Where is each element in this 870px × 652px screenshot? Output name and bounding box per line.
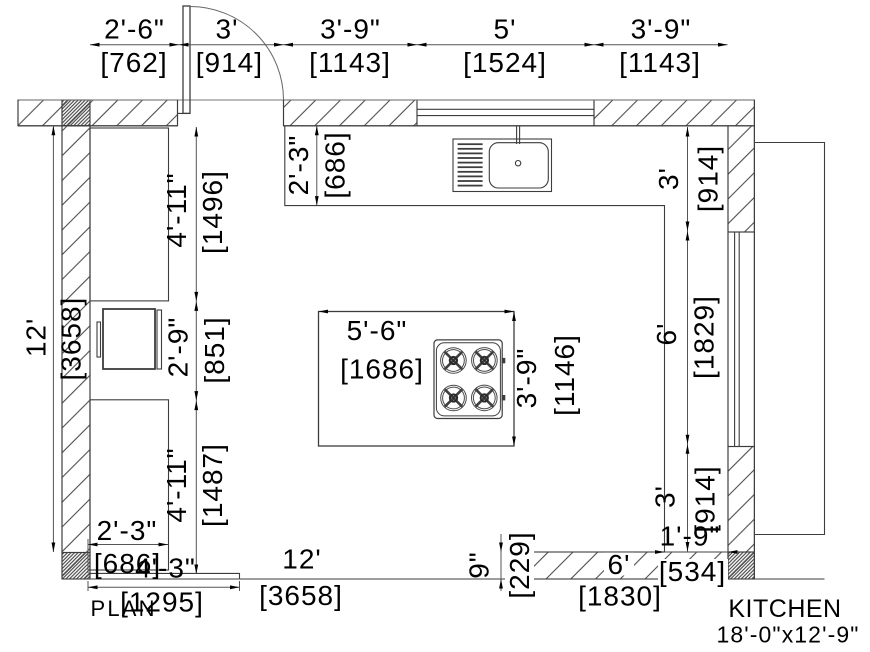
dim line 2ft3 near door bbox=[316, 126, 318, 206]
sink drain bbox=[515, 161, 520, 166]
svg-text:4'-11": 4'-11" bbox=[161, 447, 192, 522]
arrows top dim bbox=[90, 43, 100, 47]
svg-text:6': 6' bbox=[651, 323, 682, 346]
svg-text:[1146]: [1146] bbox=[549, 334, 580, 416]
dim line 9in vertical bbox=[500, 534, 502, 591]
svg-text:[1830]: [1830] bbox=[578, 581, 662, 612]
svg-text:[1143]: [1143] bbox=[619, 47, 701, 78]
svg-text:5': 5' bbox=[494, 14, 517, 45]
right wall hatched upper bbox=[728, 126, 754, 232]
svg-text:PLAN: PLAN bbox=[91, 596, 157, 621]
bottom wall hatched bbox=[530, 552, 728, 579]
left wall corner block bottom (dark) bbox=[62, 553, 90, 580]
low curb strip bottom left bbox=[90, 573, 240, 579]
appliance left side panel bbox=[97, 322, 101, 357]
right wall inner face line bbox=[727, 126, 729, 579]
svg-text:9": 9" bbox=[464, 551, 495, 579]
top wall corner block left (dark) bbox=[62, 100, 90, 126]
svg-text:1'-9": 1'-9" bbox=[660, 521, 721, 552]
door D1 leaf bbox=[183, 6, 190, 113]
left wall hatched bbox=[62, 126, 90, 553]
left wall inner face line bbox=[89, 126, 91, 579]
arrows 2ft3 near door bbox=[315, 126, 319, 206]
svg-text:[1143]: [1143] bbox=[309, 47, 391, 78]
right wall corner block bottom (dark) bbox=[728, 552, 754, 579]
svg-text:2'-3": 2'-3" bbox=[283, 135, 314, 196]
svg-text:[1487]: [1487] bbox=[197, 443, 228, 527]
svg-text:18'-0"x12'-9": 18'-0"x12'-9" bbox=[717, 622, 860, 648]
burner 2 bbox=[472, 348, 498, 374]
floor area boundary polyline bbox=[285, 126, 665, 552]
burner 4 bbox=[472, 385, 498, 411]
text mask 6ft bottom bbox=[604, 553, 634, 576]
top wall outer face line bbox=[18, 99, 754, 101]
svg-text:[534]: [534] bbox=[659, 556, 726, 587]
left inner dimension line column bbox=[195, 127, 197, 574]
island counter bbox=[319, 312, 515, 447]
svg-text:2'-9": 2'-9" bbox=[163, 317, 194, 378]
dim line 1ft9 extension bbox=[665, 551, 739, 553]
svg-text:[1686]: [1686] bbox=[340, 354, 424, 385]
stove knob right upper bbox=[502, 358, 505, 362]
left outer dimension line 12ft bbox=[52, 126, 54, 552]
cabinet counter upper left bbox=[90, 128, 169, 301]
svg-text:[1524]: [1524] bbox=[463, 47, 547, 78]
top wall left end cap bbox=[17, 100, 19, 126]
svg-text:[1829]: [1829] bbox=[689, 295, 720, 379]
svg-text:KITCHEN: KITCHEN bbox=[728, 595, 841, 623]
left wall outer face line bbox=[61, 100, 63, 579]
svg-text:[686]: [686] bbox=[94, 548, 161, 579]
svg-text:3': 3' bbox=[216, 14, 239, 45]
svg-text:3'-9": 3'-9" bbox=[511, 348, 542, 409]
door jamb left bbox=[178, 100, 191, 126]
svg-text:3'-9": 3'-9" bbox=[320, 14, 381, 45]
burner 3 bbox=[441, 385, 467, 411]
door jamb right bbox=[283, 100, 285, 126]
arrows island depth 3ft9 bbox=[512, 312, 516, 447]
sink basin bbox=[489, 143, 548, 188]
top dimension line bbox=[90, 44, 728, 46]
svg-text:5'-6": 5'-6" bbox=[347, 315, 408, 346]
svg-text:3': 3' bbox=[650, 485, 681, 508]
svg-text:3'-9": 3'-9" bbox=[631, 14, 692, 45]
svg-text:[1496]: [1496] bbox=[197, 170, 228, 254]
dim line 2ft3 bottom bbox=[88, 544, 168, 546]
burner 1 bbox=[441, 348, 467, 374]
svg-text:[914]: [914] bbox=[693, 145, 724, 212]
arrows 9in bbox=[499, 543, 503, 589]
window W1 in top wall bbox=[417, 100, 594, 126]
top wall inner face lines bbox=[18, 125, 728, 127]
cabinet counter lower left bbox=[90, 400, 169, 570]
text mask 229 bbox=[505, 531, 534, 599]
top wall hatched segment middle bbox=[284, 100, 418, 126]
svg-text:3': 3' bbox=[653, 167, 684, 190]
right inner dimension line column bbox=[687, 127, 689, 552]
window W2 in right wall bbox=[728, 232, 754, 447]
dim ticks 4ft3 bbox=[88, 581, 240, 591]
svg-text:6': 6' bbox=[608, 549, 631, 580]
appliance left (oven) bbox=[103, 309, 155, 369]
svg-text:[229]: [229] bbox=[504, 531, 535, 598]
svg-text:2'-3": 2'-3" bbox=[97, 515, 158, 546]
dim tick 2ft3 left bbox=[87, 539, 89, 573]
svg-text:[3658]: [3658] bbox=[259, 580, 343, 611]
svg-text:[851]: [851] bbox=[199, 316, 230, 383]
stove knob right lower bbox=[502, 396, 505, 400]
sink unit outer bbox=[453, 139, 552, 192]
svg-text:[914]: [914] bbox=[196, 47, 263, 78]
right wall hatched lower bbox=[728, 447, 754, 553]
sink faucet bbox=[517, 126, 520, 144]
text mask 534 bbox=[658, 559, 728, 584]
arrows right inner column bbox=[686, 127, 690, 137]
floor line bottom bbox=[62, 578, 825, 580]
dim line 4ft3 bottom bbox=[88, 586, 240, 588]
svg-text:[686]: [686] bbox=[320, 131, 351, 198]
arrows 1ft9 bbox=[655, 550, 738, 554]
stove cooktop bbox=[434, 340, 505, 419]
svg-text:12': 12' bbox=[282, 544, 322, 575]
arrows island width 5ft6 bbox=[319, 310, 515, 314]
svg-text:2'-6": 2'-6" bbox=[104, 14, 165, 45]
right wall outer face line bbox=[753, 100, 755, 579]
bottom wall top face line bbox=[530, 551, 728, 553]
svg-text:4'-11": 4'-11" bbox=[161, 172, 192, 247]
top wall hatched segment right bbox=[594, 100, 754, 126]
bottom wall left end cap bbox=[529, 552, 531, 579]
exterior structure right bbox=[754, 143, 824, 535]
svg-text:12': 12' bbox=[21, 318, 52, 358]
svg-text:[762]: [762] bbox=[100, 47, 167, 78]
appliance right side panel bbox=[157, 310, 162, 369]
arrows left inner column bbox=[194, 127, 198, 137]
top wall hatched segment left bbox=[18, 100, 178, 126]
svg-text:[3658]: [3658] bbox=[55, 297, 86, 381]
arrows left outer dim bbox=[52, 126, 56, 552]
door D1 swing arc bbox=[190, 7, 284, 101]
sink drainboard stripes bbox=[458, 143, 483, 186]
arrows 4ft3 bbox=[88, 585, 240, 589]
arrows 2ft3 bottom bbox=[88, 543, 168, 547]
